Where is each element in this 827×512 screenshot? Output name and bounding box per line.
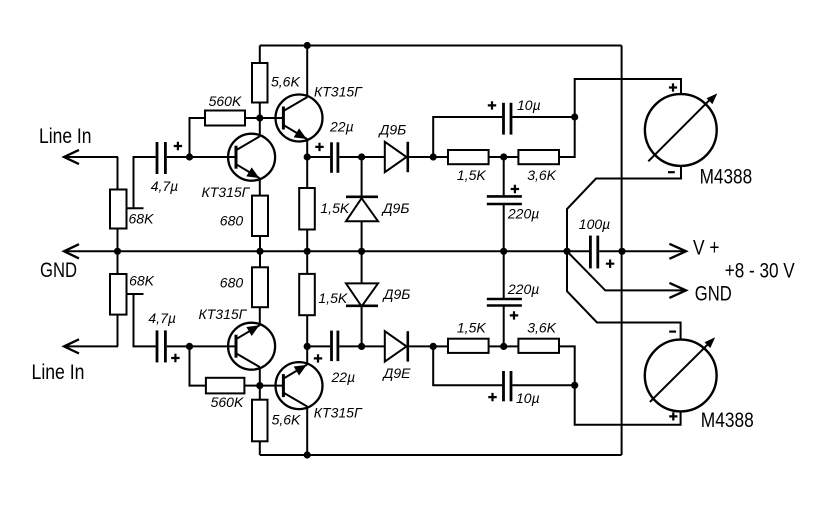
svg-text:560K: 560K xyxy=(211,394,244,410)
svg-text:5,6K: 5,6K xyxy=(272,411,301,427)
top supply rail xyxy=(260,45,622,47)
svg-text:680: 680 xyxy=(220,274,244,290)
resistor R4 680 (top) xyxy=(252,196,268,236)
wire: pot A bottom to GND rail xyxy=(117,229,119,252)
wire: 560K right to base node xyxy=(245,117,260,119)
capacitor C7 22u (bottom) xyxy=(332,331,338,362)
C7 polarity + xyxy=(314,354,322,362)
V+ arrow xyxy=(669,244,686,259)
wire: pot B top to GND rail xyxy=(117,251,119,274)
wire: node A6 down to C4 xyxy=(503,157,505,195)
resistor R3 5,6K (top) xyxy=(252,63,268,103)
bottom supply rail xyxy=(260,454,622,456)
svg-text:КТ315Г: КТ315Г xyxy=(202,184,251,200)
wire: node A4 to R6 xyxy=(433,156,448,158)
node B6 junction dot xyxy=(500,343,507,350)
wire: pot A wiper up to cap xyxy=(134,157,156,208)
wire: R13 to node B6 xyxy=(489,345,504,347)
capacitor C8 10u (bottom) xyxy=(504,371,512,401)
wire: node A6 to R7 xyxy=(504,156,519,158)
svg-text:+8 - 30 V: +8 - 30 V xyxy=(725,260,795,283)
wire: GND node to M2 minus (bent) xyxy=(567,251,681,339)
C1 polarity + xyxy=(174,142,182,150)
node B3 junction dot xyxy=(358,343,365,350)
wire: C8 to node B5 xyxy=(512,384,574,386)
junction V+ node xyxy=(618,248,625,255)
resistor R6 1,5K horizontal (top) xyxy=(448,150,489,164)
svg-text:1,5K: 1,5K xyxy=(318,290,347,306)
wire: node A3 to series diode xyxy=(362,156,385,158)
svg-text:КТ315Г: КТ315Г xyxy=(314,84,363,100)
meter PA2 M4388 (bottom) xyxy=(645,337,717,411)
wire: node B1 down to 560K left xyxy=(190,346,206,385)
node B5 junction dot xyxy=(571,382,578,389)
wire: input A to pot top xyxy=(117,157,119,190)
wire: node B6 to R14 xyxy=(504,345,519,347)
svg-text:1,5K: 1,5K xyxy=(457,320,486,336)
wire: Q2 collector to top rail xyxy=(306,46,308,98)
wire: node B6 up to C9 xyxy=(503,306,505,346)
svg-text:68K: 68K xyxy=(129,210,155,226)
wire: C6 to node B1 xyxy=(167,345,190,347)
resistor R13 1,5K horizontal (bottom) xyxy=(448,339,489,353)
potentiometer R8 68K (bottom) xyxy=(110,274,144,315)
svg-text:Д9Е: Д9Е xyxy=(382,365,412,381)
capacitor C2 22u (top) xyxy=(332,142,338,173)
svg-text:GND: GND xyxy=(695,282,732,305)
C3 polarity + xyxy=(488,101,496,109)
svg-text:10µ: 10µ xyxy=(517,97,541,113)
svg-text:1,5K: 1,5K xyxy=(320,200,349,216)
wire: series diode B to node B4 xyxy=(409,345,433,347)
M1 plus sign xyxy=(669,83,677,91)
wire: node B3 to series diode B xyxy=(362,345,385,347)
wire: input B to pot bottom xyxy=(117,315,119,347)
wire: node A3 down to shunt diode xyxy=(361,157,363,196)
svg-text:Д9Б: Д9Б xyxy=(382,286,411,302)
M1 minus sign xyxy=(668,171,675,173)
wire: C3 to node A5 xyxy=(512,116,574,118)
wire: node A5 up to meter M1 plus xyxy=(575,79,681,117)
node A5 junction dot xyxy=(571,113,578,120)
wire: Q2 emitter to node A2 xyxy=(306,139,308,157)
wire: node A4 up and to C3 xyxy=(433,117,502,157)
svg-text:4,7µ: 4,7µ xyxy=(151,178,179,194)
capacitor C5 100u (supply) xyxy=(590,236,597,269)
GND left arrow xyxy=(64,244,79,258)
wire: 5,6K to top rail xyxy=(259,46,261,64)
wire: node B4 to R13 xyxy=(433,345,448,347)
wire: R5 to GND rail xyxy=(306,230,308,252)
node B2 junction dot xyxy=(304,343,311,350)
wire: 680 bottom to GND rail xyxy=(259,251,261,267)
svg-text:68K: 68K xyxy=(129,272,155,288)
svg-text:Д9Б: Д9Б xyxy=(378,122,407,138)
transistor Q1 KT315G (top, first stage) xyxy=(228,134,275,181)
Line In B arrow xyxy=(64,339,79,353)
svg-text:Line In: Line In xyxy=(39,125,92,148)
wire: V+ node to arrow xyxy=(622,250,686,252)
node A6 junction dot xyxy=(500,153,507,160)
wire: Q1 collector up xyxy=(259,118,261,136)
wire: Line In B xyxy=(64,345,118,347)
svg-text:Д9Б: Д9Б xyxy=(381,200,410,216)
wire: C1 to node A1 xyxy=(167,156,190,158)
diode VD1 D9B series (top) xyxy=(385,142,408,172)
resistor R11 5,6K (bottom) xyxy=(252,400,268,442)
wire: C5 to V+ node xyxy=(599,250,622,252)
wire: node A2 to R5 xyxy=(306,157,308,188)
diode VD3 D9E series (bottom) xyxy=(385,331,408,361)
wire: node B4 down and to C8 xyxy=(433,346,502,385)
svg-text:V +: V + xyxy=(693,237,720,260)
GND right arrow xyxy=(669,283,686,298)
junction C4/GND rail xyxy=(500,248,507,255)
wire: 5,6K bottom to node xyxy=(259,103,261,119)
C6 polarity + xyxy=(171,354,179,362)
wire: GND rail down to shunt diode B xyxy=(361,251,363,283)
GND rail (center horizontal net) xyxy=(64,250,567,252)
wire: Q4 emitter to node B2 xyxy=(306,346,308,364)
resistor R5 1,5K vertical (top) xyxy=(299,188,315,230)
junction GND node right xyxy=(563,248,570,255)
wire: pot B wiper down to cap xyxy=(134,294,156,346)
junction R5/GND rail xyxy=(304,248,311,255)
node B4 junction dot xyxy=(430,343,437,350)
main V+ vertical bus xyxy=(621,46,623,456)
wire: base node to Q2 base xyxy=(260,117,284,119)
capacitor C6 4,7u (bottom) xyxy=(157,330,165,362)
svg-text:100µ: 100µ xyxy=(579,216,610,232)
wire: 560K right to base node B xyxy=(244,385,259,387)
wire: node B1 to Q3 base xyxy=(190,345,237,347)
node B1 junction dot xyxy=(186,343,193,350)
capacitor C1 4,7u (top) xyxy=(157,142,165,174)
junction Q4 collector / bottom rail xyxy=(304,451,311,458)
capacitor C4 220u (top) xyxy=(487,196,522,204)
svg-text:КТ315Г: КТ315Г xyxy=(314,405,363,421)
resistor R2 560K (top) xyxy=(205,111,245,126)
junction dot 560K/5,6K/collector xyxy=(256,114,263,121)
svg-text:22µ: 22µ xyxy=(331,369,356,385)
wire: GND rail to R12 xyxy=(306,251,308,274)
wire: Q1 emitter down to 680 xyxy=(259,178,261,195)
C2 polarity + xyxy=(315,143,323,151)
wire: node A2 to C2 xyxy=(307,156,330,158)
svg-text:4,7µ: 4,7µ xyxy=(148,310,176,326)
svg-text:680: 680 xyxy=(220,212,244,228)
node A2 junction dot xyxy=(304,153,311,160)
wire: R7 right up to node A5 xyxy=(559,117,575,157)
junction Q2 collector / top rail xyxy=(304,42,311,49)
svg-text:КТ315Г: КТ315Г xyxy=(199,306,248,322)
resistor R9 560K (bottom) xyxy=(206,378,245,394)
svg-text:Line In: Line In xyxy=(32,361,85,384)
svg-text:560K: 560K xyxy=(209,93,242,109)
transistor Q4 KT315G (bottom, second stage) xyxy=(276,362,323,409)
wire: shunt diode to GND rail xyxy=(361,221,363,251)
diode VD2 D9B shunt (top) xyxy=(346,197,378,221)
svg-text:10µ: 10µ xyxy=(516,390,540,406)
wire: 5,6K to bottom rail xyxy=(259,441,261,455)
wire: node B5 down to meter M2 plus xyxy=(575,385,681,424)
wire: R6 to node A6 xyxy=(489,156,504,158)
junction 680/GND rail xyxy=(256,248,263,255)
wire: Q3 emitter up to 680 xyxy=(259,307,261,325)
wire: Line In A xyxy=(64,156,118,158)
node A3 junction dot xyxy=(358,153,365,160)
node A4 junction dot xyxy=(430,153,437,160)
wire: node A1 to Q1 base xyxy=(190,156,237,158)
svg-text:220µ: 220µ xyxy=(507,206,539,222)
capacitor C9 220u (bottom) xyxy=(487,299,522,306)
wire: GND node to C5 xyxy=(567,250,589,252)
svg-text:GND: GND xyxy=(40,259,77,282)
svg-text:3,6K: 3,6K xyxy=(527,320,556,336)
svg-text:M4388: M4388 xyxy=(701,409,754,432)
meter PA1 M4388 (top) xyxy=(645,93,717,165)
wire: R14 right down to node B5 xyxy=(559,346,575,385)
wire: shunt diode B to node B3 xyxy=(361,306,363,346)
junction pot A / GND rail xyxy=(114,248,121,255)
wire: base node B to 5,6K xyxy=(259,386,261,400)
wire: C2 to node A3 xyxy=(339,156,361,158)
resistor R12 1,5K vertical (bottom) xyxy=(299,274,315,315)
wire: M1 minus to GND node (bent) xyxy=(567,166,681,251)
M2 plus sign xyxy=(669,412,677,420)
wire: C9 to GND rail xyxy=(503,251,505,299)
node A1 junction dot xyxy=(186,153,193,160)
Line In A arrow xyxy=(64,150,79,164)
diode VD4 D9B shunt (bottom) xyxy=(346,283,378,306)
wire: C7 to node B3 xyxy=(339,345,361,347)
svg-text:5,6K: 5,6K xyxy=(271,73,300,89)
resistor R10 680 (bottom) xyxy=(252,267,268,307)
svg-text:3,6K: 3,6K xyxy=(527,167,556,183)
transistor Q2 KT315G (top, second stage) xyxy=(276,95,323,142)
wire: R12 to node B2 xyxy=(306,315,308,346)
wire: GND node to right GND arrow (bent) xyxy=(567,251,686,290)
junction dot 560K/5,6K/collector bottom xyxy=(256,382,263,389)
resistor R14 3,6K (bottom) xyxy=(518,339,559,353)
C4 polarity + xyxy=(511,185,519,193)
wire: series diode to node A4 xyxy=(409,156,433,158)
M2 minus sign xyxy=(669,331,676,333)
potentiometer R1 68K (top) xyxy=(110,190,144,229)
wire: base node B to Q4 base xyxy=(260,385,284,387)
transistor Q3 KT315G (bottom, first stage) xyxy=(228,323,275,370)
svg-text:M4388: M4388 xyxy=(700,165,753,188)
svg-text:1,5K: 1,5K xyxy=(457,167,486,183)
wire: Q3 collector down to node xyxy=(259,367,261,386)
wire: C4 to GND rail xyxy=(503,204,505,251)
resistor R7 3,6K (top) xyxy=(518,150,559,164)
C8 polarity + xyxy=(488,393,496,401)
svg-text:22µ: 22µ xyxy=(329,119,354,135)
wire: 680 to GND rail xyxy=(259,236,261,251)
wire: node A1 up to 560K left xyxy=(190,118,206,157)
svg-text:220µ: 220µ xyxy=(507,281,539,297)
junction shunt diode/GND rail xyxy=(358,248,365,255)
C5 polarity + xyxy=(606,260,614,268)
capacitor C3 10u (top) xyxy=(504,103,512,135)
wire: Q4 collector to bottom rail xyxy=(306,407,308,456)
wire: node B2 to C7 xyxy=(307,345,330,347)
C9 polarity + xyxy=(510,311,518,319)
